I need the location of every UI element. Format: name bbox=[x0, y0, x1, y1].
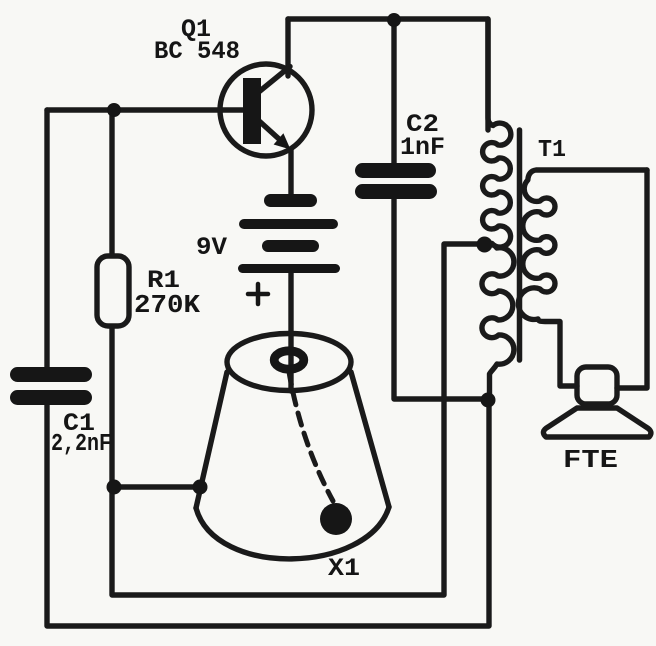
svg-text:270K: 270K bbox=[134, 290, 200, 320]
svg-text:2,2nF: 2,2nF bbox=[51, 431, 111, 458]
svg-text:FTE: FTE bbox=[563, 445, 618, 475]
svg-text:T1: T1 bbox=[538, 137, 566, 164]
svg-text:X1: X1 bbox=[328, 554, 360, 583]
svg-text:1nF: 1nF bbox=[400, 133, 445, 162]
svg-text:9V: 9V bbox=[196, 233, 227, 262]
svg-text:BC 548: BC 548 bbox=[154, 37, 240, 66]
